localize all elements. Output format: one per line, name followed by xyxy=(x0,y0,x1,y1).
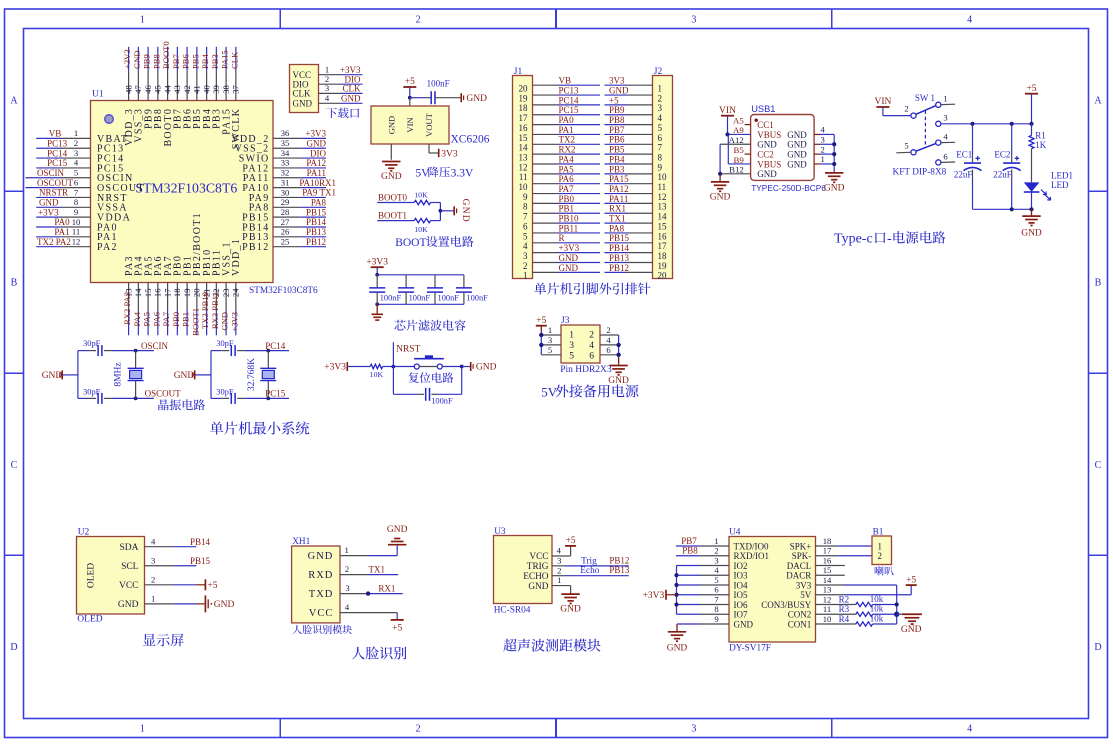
U1 pin 48 (VDD_3) top wire + net +3V3 xyxy=(122,47,135,146)
U4 pin 14 3V3 wire xyxy=(816,575,897,585)
U1 pin 6 (OSCOUT) wire + net OSCOUT xyxy=(26,177,145,194)
download port pin 3 (CLK) wire + net CLK xyxy=(293,83,363,98)
svg-text:1: 1 xyxy=(943,94,947,104)
svg-text:2: 2 xyxy=(878,551,883,561)
svg-text:IO6: IO6 xyxy=(734,600,748,610)
svg-text:PB8: PB8 xyxy=(682,546,698,556)
svg-text:32: 32 xyxy=(281,168,290,178)
svg-text:RX3 PB11: RX3 PB11 xyxy=(210,292,220,329)
svg-text:4: 4 xyxy=(967,724,972,735)
svg-text:Trig: Trig xyxy=(581,556,597,566)
junction EC2 top xyxy=(1010,122,1014,126)
J1 pin 15 wire + net PA1 xyxy=(519,125,601,143)
svg-text:16: 16 xyxy=(153,288,163,297)
svg-text:PA0: PA0 xyxy=(54,217,70,227)
U1 pin 22 (PB11) bottom wire + net RX3 PB11 xyxy=(210,249,223,335)
svg-text:PB13: PB13 xyxy=(306,227,327,237)
wire USB1 A12 GND down xyxy=(720,144,751,174)
value Pin HDR2X3 xyxy=(560,365,612,375)
caption download port xyxy=(326,108,359,119)
svg-text:PB13: PB13 xyxy=(609,253,630,263)
svg-text:R1: R1 xyxy=(1035,130,1046,140)
svg-text:R3: R3 xyxy=(839,604,850,614)
svg-text:C: C xyxy=(11,460,18,471)
svg-text:3: 3 xyxy=(345,583,349,593)
svg-text:ECHO: ECHO xyxy=(523,572,549,582)
svg-text:2: 2 xyxy=(658,93,663,103)
svg-text:+3V3: +3V3 xyxy=(305,129,326,139)
power 3V3 bar at XC6206 VOUT xyxy=(439,149,458,160)
svg-text:1: 1 xyxy=(658,84,663,94)
wire EC bottom rail xyxy=(973,208,1032,210)
svg-text:22uF: 22uF xyxy=(993,170,1012,180)
svg-text:OLED: OLED xyxy=(77,615,102,625)
svg-text:LED: LED xyxy=(1051,180,1069,190)
svg-text:19: 19 xyxy=(658,261,668,271)
svg-text:PA5: PA5 xyxy=(142,312,152,327)
J1 pin 18 wire + net PC14 xyxy=(519,95,601,113)
resistor R3 10k xyxy=(816,604,897,617)
svg-text:PA8: PA8 xyxy=(311,198,327,208)
MCU U1 STM32F103C8T6 body xyxy=(91,90,319,296)
svg-text:GND: GND xyxy=(214,600,235,610)
svg-text:U2: U2 xyxy=(78,527,90,537)
svg-text:2: 2 xyxy=(557,565,561,575)
svg-text:3: 3 xyxy=(658,103,663,113)
power VIN at SW1 xyxy=(874,97,910,115)
svg-text:+5: +5 xyxy=(1026,84,1036,94)
svg-text:GND: GND xyxy=(307,138,327,148)
U1 pin 11 (PA1) wire + net PA1 xyxy=(36,227,118,244)
svg-text:2: 2 xyxy=(820,144,824,154)
svg-text:100nF: 100nF xyxy=(431,397,453,406)
junction NRST xyxy=(392,365,396,369)
J1 pin 20 wire + net VB xyxy=(519,76,601,94)
power GND bar at crystal 32.768K xyxy=(174,370,211,381)
svg-text:CLK: CLK xyxy=(229,51,239,69)
svg-text:PA6: PA6 xyxy=(151,311,161,326)
svg-text:D: D xyxy=(10,642,17,653)
USB1 pin B5 designator xyxy=(734,145,745,155)
svg-text:10: 10 xyxy=(658,172,668,182)
U4 pin 9 GND wire xyxy=(677,614,729,624)
svg-text:TX1: TX1 xyxy=(609,214,626,224)
J2 pin 20 wire + net PB12 xyxy=(605,263,668,281)
svg-text:44: 44 xyxy=(162,85,172,94)
svg-text:+3V3: +3V3 xyxy=(340,65,361,75)
svg-text:PB14: PB14 xyxy=(190,537,211,547)
svg-text:PB4: PB4 xyxy=(609,154,625,164)
svg-text:PB14: PB14 xyxy=(609,243,630,253)
wire crystal left vertical xyxy=(77,351,79,399)
junction J3 pin6 xyxy=(616,353,620,357)
svg-text:VIN: VIN xyxy=(874,97,891,107)
resistor 10K (BOOT1) xyxy=(414,218,430,233)
svg-text:42: 42 xyxy=(182,85,192,94)
svg-text:11: 11 xyxy=(519,172,528,182)
svg-text:30pF: 30pF xyxy=(83,339,101,348)
svg-text:4: 4 xyxy=(523,241,528,251)
J1 pin 7 wire + net PB1 xyxy=(523,204,600,222)
caption 5V step-down 3.3V xyxy=(415,167,474,180)
resistor R4 10k xyxy=(816,613,897,626)
svg-text:OSCOUT: OSCOUT xyxy=(145,389,182,399)
svg-text:6: 6 xyxy=(589,351,594,361)
svg-text:BOOT1: BOOT1 xyxy=(190,308,200,336)
wire USB1 A9 VBUS to VIN node xyxy=(728,133,751,135)
svg-text:VIN: VIN xyxy=(719,106,736,116)
junction filter top-left xyxy=(375,273,379,277)
svg-text:A5: A5 xyxy=(733,115,744,125)
resistor R2 10k xyxy=(816,594,897,607)
crystal 8MHz xyxy=(114,351,144,399)
svg-text:45: 45 xyxy=(153,85,163,94)
svg-text:PA8: PA8 xyxy=(609,223,625,233)
svg-text:GND: GND xyxy=(528,582,548,592)
svg-text:38: 38 xyxy=(221,85,231,94)
svg-text:7: 7 xyxy=(658,143,663,153)
svg-text:25: 25 xyxy=(281,236,290,246)
junction U4 bus row 7 xyxy=(674,602,678,606)
J1 pin 9 wire + net PA7 xyxy=(523,184,600,202)
capacitor EC2 22uF xyxy=(993,124,1021,210)
U1 pin 24 (VDD_1) bottom wire + net +3V3 xyxy=(229,238,242,335)
svg-text:2: 2 xyxy=(74,138,78,148)
caption Type-c power circuit xyxy=(834,231,945,246)
svg-text:15: 15 xyxy=(143,289,153,298)
svg-text:10k: 10k xyxy=(870,613,884,623)
svg-text:+5: +5 xyxy=(566,536,576,546)
junction crystal top xyxy=(134,349,138,353)
value KFT DIP-8X8 xyxy=(893,167,947,177)
svg-text:PA10RX1: PA10RX1 xyxy=(299,178,336,188)
junction USB1 GND bus 2 xyxy=(832,142,836,146)
power +3V3 bar at reset xyxy=(324,362,347,373)
U4 pin 16 DACL stub xyxy=(816,555,845,565)
svg-text:B: B xyxy=(1095,278,1102,289)
svg-text:33: 33 xyxy=(281,158,290,168)
svg-text:41: 41 xyxy=(192,85,202,94)
U1 pin 9 (VDDA) wire + net +3V3 xyxy=(36,207,131,224)
connector J2 header body xyxy=(653,67,673,279)
U3 pin 3 TRIG wire + net PB12 xyxy=(552,555,629,566)
svg-text:29: 29 xyxy=(281,197,290,207)
power +3V3 at filter caps xyxy=(366,257,388,274)
svg-text:3: 3 xyxy=(325,83,329,93)
svg-text:TRIG: TRIG xyxy=(527,562,549,572)
svg-text:SDA: SDA xyxy=(119,543,138,553)
USB1 right pin 3 wire xyxy=(814,134,834,144)
svg-text:GND: GND xyxy=(341,94,361,104)
svg-text:3V3: 3V3 xyxy=(441,149,458,159)
J1 pin 10 wire + net PA6 xyxy=(519,174,601,192)
svg-text:PC15: PC15 xyxy=(47,158,68,168)
junction U4 bus row 5 xyxy=(674,583,678,587)
net label OSCOUT xyxy=(145,389,182,399)
svg-text:15: 15 xyxy=(658,221,668,231)
svg-text:PC14: PC14 xyxy=(265,341,286,351)
power VIN at USB1 xyxy=(719,106,736,135)
USB1 pin A9 designator xyxy=(733,125,744,135)
svg-text:PB7: PB7 xyxy=(681,536,697,546)
svg-text:6: 6 xyxy=(606,345,611,355)
svg-text:13: 13 xyxy=(519,152,529,162)
svg-text:5: 5 xyxy=(523,231,528,241)
svg-text:PA7: PA7 xyxy=(559,184,575,194)
junction VIN/VBUS xyxy=(725,132,729,136)
svg-text:A: A xyxy=(1094,96,1102,107)
capacitor 30pF top xyxy=(216,339,235,356)
svg-text:PA5: PA5 xyxy=(559,164,575,174)
svg-text:1: 1 xyxy=(140,724,145,735)
J2 pin 3 wire + net +5 xyxy=(605,95,663,113)
svg-text:39: 39 xyxy=(211,85,221,94)
caption BOOT setting circuit xyxy=(395,236,473,249)
USB1 pin A12 designator xyxy=(729,135,744,145)
ground GND at U3 xyxy=(560,594,581,615)
svg-text:100nF: 100nF xyxy=(380,294,402,303)
J3 pin 1 wire xyxy=(541,325,561,335)
J2 pin 12 wire + net PA12 xyxy=(605,184,667,202)
U1 pin 3 (PC14) wire + net PC14 xyxy=(36,148,124,165)
svg-text:B9: B9 xyxy=(734,155,745,165)
ground GND right of USB1 xyxy=(824,173,845,194)
power GND bar reset xyxy=(462,362,497,373)
svg-text:B12: B12 xyxy=(729,165,744,175)
svg-text:GND: GND xyxy=(387,525,408,535)
svg-text:PB5: PB5 xyxy=(609,145,625,155)
svg-text:PB10: PB10 xyxy=(559,214,580,224)
svg-text:PA1: PA1 xyxy=(559,125,574,135)
svg-text:46: 46 xyxy=(143,85,153,94)
svg-text:PA1: PA1 xyxy=(54,227,69,237)
svg-text:B5: B5 xyxy=(734,145,745,155)
J2 pin 14 wire + net RX1 xyxy=(605,204,668,222)
svg-text:10K: 10K xyxy=(370,370,384,379)
svg-text:1: 1 xyxy=(151,594,155,604)
svg-text:SPK+: SPK+ xyxy=(790,541,812,551)
svg-text:GND: GND xyxy=(757,169,777,179)
svg-text:PB6: PB6 xyxy=(609,135,625,145)
U1 pin 19 (PB1) bottom wire + net PB1 xyxy=(181,255,194,335)
svg-text:6: 6 xyxy=(714,585,719,595)
XH1 pin 4 VCC wire xyxy=(340,602,397,612)
USB1 right pin 4 wire xyxy=(814,125,834,135)
svg-text:HC-SR04: HC-SR04 xyxy=(494,605,531,615)
svg-text:2: 2 xyxy=(904,104,908,114)
U1 pin 2 (PC13) wire + net PC13 xyxy=(36,138,124,155)
J2 pin 11 wire + net PA15 xyxy=(605,174,667,192)
svg-text:3: 3 xyxy=(943,113,947,123)
svg-text:5: 5 xyxy=(904,141,908,151)
svg-text:2: 2 xyxy=(606,325,610,335)
switch SW1 xyxy=(896,93,955,165)
net label PC14 xyxy=(265,341,286,351)
svg-text:14: 14 xyxy=(519,143,529,153)
U4 pin 2 wire + net PB8 xyxy=(676,546,729,556)
U4 pin 18 SPK+ wire to B1 xyxy=(816,536,873,546)
J2 pin 10 wire + net PB3 xyxy=(605,164,668,182)
svg-text:19: 19 xyxy=(182,289,192,298)
svg-text:A12: A12 xyxy=(729,135,744,145)
svg-text:RX2 PA3: RX2 PA3 xyxy=(122,292,132,325)
svg-text:PB12: PB12 xyxy=(242,242,269,253)
J1 pin 6 wire + net PB10 xyxy=(523,214,600,232)
svg-text:PB9: PB9 xyxy=(142,54,152,69)
U4 pin 13 5V wire to +5 xyxy=(816,575,917,594)
caption display screen xyxy=(143,634,184,647)
svg-text:NRSTR: NRSTR xyxy=(39,188,68,198)
U1 pin 4 (PC15) wire + net PC15 xyxy=(36,158,124,175)
wire crystal left vertical xyxy=(210,351,212,399)
U4 pin 7 wire (IO6) xyxy=(677,594,730,604)
caption reset circuit xyxy=(408,372,453,383)
J2 pin 2 wire + net GND xyxy=(605,85,663,103)
J2 pin 13 wire + net PA11 xyxy=(605,194,668,212)
power +5 at J3 xyxy=(536,316,547,326)
svg-text:10: 10 xyxy=(519,182,529,192)
svg-text:PA11: PA11 xyxy=(609,194,628,204)
wire filter bottom rail xyxy=(377,303,464,305)
U1 pin 13 (PA3) bottom wire + net RX2 PA3 xyxy=(122,255,135,335)
capacitor 100nF filter #2 xyxy=(398,275,430,305)
svg-text:GND: GND xyxy=(1021,229,1042,239)
svg-text:VIN: VIN xyxy=(405,117,415,132)
capacitor 100nF reset xyxy=(426,388,453,406)
svg-text:1: 1 xyxy=(140,15,145,26)
wire crystal bottom rail xyxy=(211,397,289,399)
speaker B1 body xyxy=(872,527,892,564)
wire J3 GND vertical bus xyxy=(618,335,620,365)
svg-text:VB: VB xyxy=(559,76,572,86)
wire +3V3 to R? reset xyxy=(347,366,370,368)
U1 pin 28 (PB15) wire + net PB15 xyxy=(242,207,326,224)
net label BOOT0 xyxy=(378,193,407,203)
U1 pin 29 (PA8) wire + net PA8 xyxy=(249,197,327,214)
svg-text:GND: GND xyxy=(559,253,579,263)
svg-text:5: 5 xyxy=(714,575,718,585)
svg-text:VOUT: VOUT xyxy=(424,112,434,136)
audio module U4 DY-SV17F body xyxy=(729,527,816,653)
J1 pin 16 wire + net PA0 xyxy=(519,115,601,133)
junction U4 bus CON2 xyxy=(894,612,899,617)
caption MCU minimum system xyxy=(210,421,309,434)
svg-text:U1: U1 xyxy=(92,90,104,100)
svg-text:PA7: PA7 xyxy=(161,311,171,326)
svg-text:6: 6 xyxy=(74,177,79,187)
svg-text:10k: 10k xyxy=(870,594,884,604)
resistor R1 1K xyxy=(1029,124,1047,183)
svg-text:16: 16 xyxy=(519,123,529,133)
svg-text:BOOT1: BOOT1 xyxy=(378,211,407,221)
svg-text:4: 4 xyxy=(151,537,156,547)
wire filter top rail xyxy=(377,274,464,276)
svg-text:+3V3: +3V3 xyxy=(559,243,580,253)
U1 pin 32 (PA11) wire + net PA11 xyxy=(243,168,326,185)
svg-text:+3V3: +3V3 xyxy=(38,207,59,217)
XH1 pin 1 GND wire xyxy=(340,545,397,555)
svg-text:1: 1 xyxy=(557,575,561,585)
U2 pin 2 (VCC) wire xyxy=(119,575,196,591)
U1 pin 30 (PA9) wire + net PA9 TX1 xyxy=(249,187,336,204)
svg-text:PB1: PB1 xyxy=(559,204,575,214)
svg-text:+5: +5 xyxy=(405,77,415,87)
svg-text:GND: GND xyxy=(560,605,581,615)
svg-text:U4: U4 xyxy=(729,527,741,537)
svg-text:TX1: TX1 xyxy=(369,564,386,574)
junction USB1 GND bus 3 xyxy=(832,152,836,156)
svg-text:12: 12 xyxy=(72,236,81,246)
svg-text:PB5: PB5 xyxy=(190,54,200,69)
J3 pin 5 wire xyxy=(541,345,561,355)
svg-text:GND: GND xyxy=(118,600,139,610)
U4 pin 15 DACR stub xyxy=(816,565,845,575)
J2 pin 8 wire + net PB5 xyxy=(605,145,663,163)
caption 5V external backup power xyxy=(541,384,638,399)
svg-text:6: 6 xyxy=(943,152,948,162)
junction EC2 bottom xyxy=(1010,207,1014,211)
svg-text:36: 36 xyxy=(281,128,290,138)
junction filter bottom-left xyxy=(375,302,379,306)
wire U4 +3V3 bus vertical xyxy=(676,566,678,615)
download port pin 1 (VCC) wire + net +3V3 xyxy=(293,65,363,80)
svg-text:GND: GND xyxy=(308,551,334,562)
svg-text:GND: GND xyxy=(381,172,402,182)
svg-text:DY-SV17F: DY-SV17F xyxy=(729,643,771,653)
svg-text:100nF: 100nF xyxy=(409,294,431,303)
svg-text:PA12: PA12 xyxy=(306,158,326,168)
ground GND below U4 xyxy=(667,624,688,653)
J3 pin 6 wire xyxy=(600,345,619,355)
svg-text:22uF: 22uF xyxy=(954,170,973,180)
svg-text:17: 17 xyxy=(823,546,832,556)
connector XH1 body xyxy=(292,537,340,623)
svg-text:CLK: CLK xyxy=(343,84,362,94)
svg-text:3: 3 xyxy=(523,251,528,261)
svg-text:18: 18 xyxy=(172,289,182,298)
svg-text:14: 14 xyxy=(823,575,832,585)
svg-text:CC1: CC1 xyxy=(757,120,774,130)
svg-text:LED1: LED1 xyxy=(1051,171,1073,181)
U3 pin 2 ECHO wire + net PB13 xyxy=(552,565,630,576)
svg-text:13: 13 xyxy=(658,202,668,212)
svg-text:PC13: PC13 xyxy=(559,85,580,95)
junction R1 top xyxy=(1029,122,1033,126)
svg-text:PB15: PB15 xyxy=(609,233,630,243)
power +5 at U2 VCC xyxy=(196,579,217,591)
U4 pin 5 wire (IO4) xyxy=(677,575,730,585)
svg-text:CON2: CON2 xyxy=(788,610,812,620)
USB1 pin B12 designator xyxy=(729,165,744,175)
svg-text:+3V3: +3V3 xyxy=(324,363,346,373)
svg-text:10: 10 xyxy=(72,217,81,227)
power GND bar right of XC6206 cap xyxy=(461,93,487,104)
svg-text:PB3: PB3 xyxy=(609,164,625,174)
svg-text:16: 16 xyxy=(823,555,832,565)
U2 pin 3 (SCL) wire xyxy=(121,556,196,572)
resistor 10K reset xyxy=(370,364,384,379)
U1 pin 34 (SWIO) wire + net DIO xyxy=(239,148,327,165)
J1 pin 12 wire + net PA4 xyxy=(519,154,601,172)
caption MCU pin-out headers xyxy=(534,283,650,295)
svg-text:+5: +5 xyxy=(392,623,402,633)
svg-text:A9: A9 xyxy=(733,125,744,135)
svg-text:1: 1 xyxy=(548,325,552,335)
J1 pin 11 wire + net PA5 xyxy=(519,164,600,182)
U2 pin 1 (GND) wire xyxy=(118,594,196,610)
U1 pin 44 (BOOT0) top wire + net BOOT0 xyxy=(161,41,174,146)
svg-text:CLK: CLK xyxy=(293,89,312,99)
